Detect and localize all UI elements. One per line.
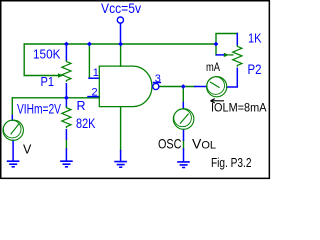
wire V source bottom lead (12, 140, 14, 160)
node dot P2 branch (214, 42, 219, 47)
wire P2 top loop (216, 34, 237, 45)
svg-text:Fig. P3.2: Fig. P3.2 (211, 156, 252, 170)
wire pin1 lead (89, 77, 99, 79)
wire top Vcc bus (24, 43, 216, 45)
OSC voltage probe circle (173, 109, 194, 130)
svg-text:150K: 150K (33, 47, 61, 62)
V source VIHm circle (3, 120, 23, 140)
svg-text:1: 1 (93, 67, 99, 79)
ground under gate (114, 162, 127, 168)
svg-text:R: R (77, 99, 86, 113)
svg-text:OSC: OSC (158, 136, 182, 152)
ground under V source (7, 161, 20, 167)
NAND output bubble (153, 83, 159, 89)
wire 82K to ground (65, 139, 67, 149)
mA probe circle (207, 77, 227, 97)
wire OSC ground lead (183, 149, 185, 162)
node dot P1 top (64, 42, 69, 47)
svg-text:P2: P2 (248, 62, 262, 77)
wire P1 top lead (65, 44, 67, 60)
wire P1 wiper feed (24, 75, 58, 77)
svg-text:mA: mA (206, 60, 220, 74)
ground under 82K (60, 161, 73, 167)
wire P2 top blue lead (236, 34, 238, 46)
wire output to node A (159, 86, 195, 88)
wiper arrow P1 (58, 73, 63, 78)
wire pin1 branch drop (88, 44, 90, 78)
junction dots (64, 42, 218, 101)
border frame (1, 1, 270, 179)
resistor R 82K zigzag (62, 106, 71, 128)
node dot Vcc (118, 42, 123, 47)
wire Vcc terminal lead (120, 23, 122, 44)
potentiometer P2 1K zigzag (233, 45, 242, 67)
wire node A down to OSC probe (182, 87, 184, 103)
wire P2 wiper drop (215, 44, 217, 55)
wire bus left drop to P1 wiper (23, 44, 25, 76)
ground under OSC (177, 162, 190, 168)
svg-text:1K: 1K (248, 31, 262, 46)
node dot R top (64, 95, 69, 100)
wire VIHm to pin2 (12, 98, 99, 116)
wire gate power pin (120, 44, 122, 66)
node dot pin1 branch (87, 42, 92, 47)
NAND gate U1 body (99, 66, 152, 107)
wiper arrow P2 (224, 53, 234, 57)
svg-text:V: V (23, 143, 32, 157)
Vcc terminal circle (117, 17, 123, 23)
wire OSC probe top lead (182, 103, 184, 109)
svg-text:3: 3 (155, 73, 161, 85)
pin3 underline (154, 82, 161, 84)
svg-text:VIHm=2V: VIHm=2V (17, 101, 61, 117)
wire P2 wiper blue segment (217, 54, 224, 56)
wire P1 bottom lead (65, 84, 67, 98)
wire ground lead under 82K (65, 149, 67, 161)
node dot output (181, 84, 186, 89)
IOLM arrow (211, 99, 225, 103)
svg-text:IOLM=8mA: IOLM=8mA (211, 101, 267, 115)
wire gate ground pin (120, 107, 122, 151)
svg-text:P1: P1 (41, 74, 55, 89)
svg-text:Vcc=5v: Vcc=5v (101, 0, 141, 16)
wire R top lead (65, 98, 67, 107)
wire node A to mA meter (195, 86, 207, 88)
wire ground lead under gate (120, 151, 122, 162)
wire OSC probe bottom lead (183, 130, 185, 140)
potentiometer P1 150K zigzag (62, 60, 71, 82)
wire mA meter to P2 bottom (227, 68, 238, 87)
pin2 underline lead (88, 96, 99, 98)
wire V source top lead (11, 116, 13, 121)
wire OSC probe to ground (183, 140, 185, 149)
svg-text:82K: 82K (76, 116, 96, 131)
wire R bottom lead (65, 130, 67, 139)
svg-text:2: 2 (92, 87, 98, 99)
